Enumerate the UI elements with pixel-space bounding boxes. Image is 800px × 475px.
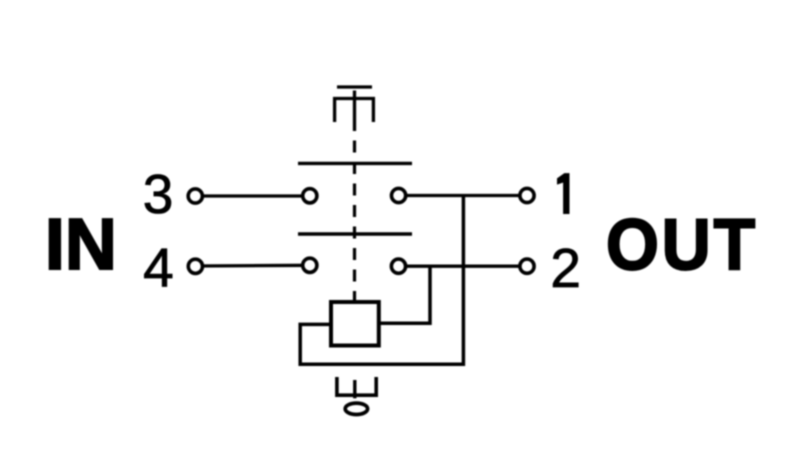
wire terminal 3 to contact: [195, 194, 310, 197]
svg-text:IN: IN: [45, 205, 117, 285]
wire contact to terminal 1: [399, 194, 527, 197]
lamp box: [331, 302, 379, 346]
svg-text:OUT: OUT: [606, 205, 758, 285]
wire contact to terminal 2: [399, 265, 528, 268]
wire terminal 4 to contact: [195, 264, 310, 268]
svg-text:3: 3: [143, 163, 174, 225]
terminal circle 4 right (contact): [303, 258, 317, 272]
terminal circle 3 left: [188, 189, 202, 203]
movable contact bridge bottom: [298, 232, 412, 235]
svg-text:4: 4: [143, 237, 174, 299]
wire vertical from terminal 2 net down to lamp: [379, 266, 430, 323]
dashed actuator linkage: [353, 131, 356, 302]
wire vertical from terminal 1 net down to lamp return: [300, 196, 463, 365]
pushbutton actuator bracket: [335, 91, 374, 132]
contact circle to terminal 2: [391, 259, 405, 273]
label 1: [557, 174, 569, 214]
lamp lens ellipse: [345, 403, 367, 414]
movable contact bridge top: [298, 162, 412, 165]
terminal circle 1: [520, 188, 534, 202]
plunger return symbol: [337, 377, 376, 398]
terminal circle 4 left: [188, 259, 202, 273]
contact circle to terminal 1: [392, 188, 406, 202]
terminal circle 2: [520, 259, 534, 273]
terminal circle 3 right (contact): [303, 189, 317, 203]
pushbutton actuator cap: [337, 85, 372, 88]
svg-text:2: 2: [550, 237, 581, 299]
